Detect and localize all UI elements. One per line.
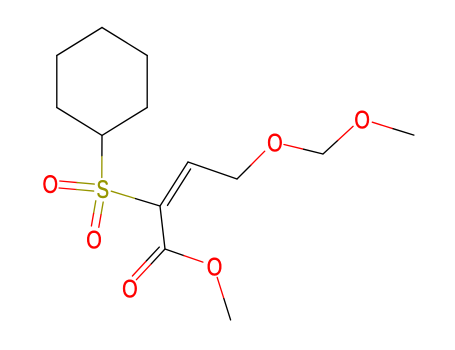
svg-text:S: S — [97, 175, 110, 203]
svg-text:O: O — [86, 226, 102, 254]
svg-text:O: O — [207, 253, 223, 281]
svg-text:O: O — [354, 106, 370, 134]
svg-text:O: O — [43, 171, 59, 199]
svg-text:O: O — [122, 275, 138, 303]
svg-text:O: O — [267, 129, 283, 157]
